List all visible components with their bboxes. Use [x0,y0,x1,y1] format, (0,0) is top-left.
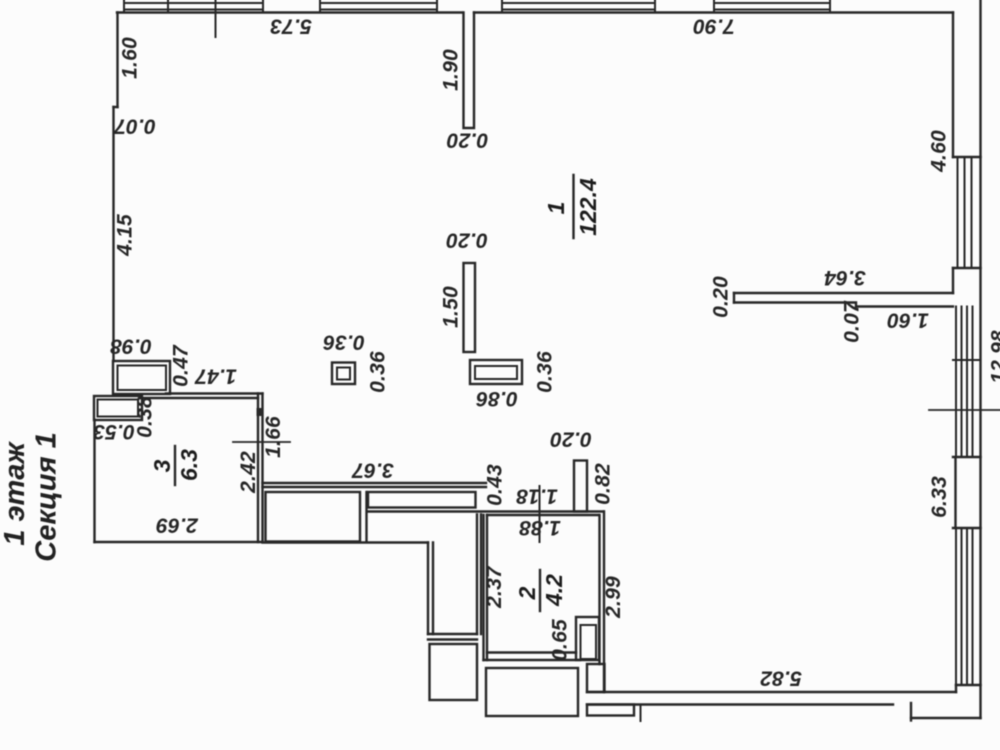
svg-text:1.18: 1.18 [516,485,558,508]
node room3 fraction bar [174,446,176,485]
svg-text:1.50: 1.50 [440,286,463,328]
wall duct room2 inner [581,625,597,659]
svg-text:1.66: 1.66 [262,416,285,458]
svg-text:7.90: 7.90 [693,15,735,38]
wire right outer wall [979,0,981,718]
wire wall 3.64 lower with jog [734,303,953,307]
wall thin box duct [368,492,476,508]
svg-text:1.90: 1.90 [440,49,463,91]
wall pier 0.53x0.38 outer [94,396,142,420]
svg-text:1.47: 1.47 [194,365,237,388]
svg-text:2: 2 [514,586,540,600]
wire wall 3.64 left cap [733,293,735,303]
wire top window band mullions [124,0,830,13]
wire right window bottom cap [956,684,981,686]
wire mid wall down double [428,543,433,635]
column small square inner [337,368,350,380]
wire top window band top line [124,2,830,4]
wire top interior wall stub 1.90 [464,13,475,129]
svg-text:0.36: 0.36 [367,351,390,393]
svg-text:0.20: 0.20 [446,229,488,252]
wire wall 3.64 upper [734,292,953,294]
wall pier 0.98 inner [118,366,167,391]
wire right window1 cap bottom [953,267,981,269]
wire dimension tick 1.66 [233,441,290,443]
svg-text:0.20: 0.20 [550,428,592,451]
text labels upside down [93,15,929,690]
wire bottom wall 5.82 lower [587,703,893,705]
svg-text:2.42: 2.42 [237,451,260,494]
wire dimension tick room2 top wall [539,486,541,542]
svg-text:0.86: 0.86 [476,387,518,410]
svg-text:5.73: 5.73 [270,15,312,38]
wire right door cap top [953,456,981,458]
svg-text:5.82: 5.82 [760,667,802,690]
wire right window1 cap top [953,156,981,158]
wire bottom right step vertical [910,703,912,721]
wall box big below kitchen2 [486,668,578,716]
svg-text:0.36: 0.36 [323,331,365,354]
svg-text:0.07: 0.07 [113,115,156,138]
wall box kitchen pier [266,492,361,542]
column bar 1.50 [464,263,476,352]
wire left wall jog 0.07 [114,106,118,108]
svg-text:0.20: 0.20 [710,276,733,318]
column rect 0.86 outer [470,360,522,384]
text labels rotated -90 [114,37,1000,661]
wire bottom wall right connector [955,685,957,692]
wire right wall solid mid [952,268,954,293]
wire left outer wall lower [112,107,114,361]
svg-text:1 этаж: 1 этаж [0,441,31,546]
column small square outer [332,363,355,385]
svg-text:0.53: 0.53 [93,420,135,443]
wire room3 right wall double [258,394,263,543]
wall pier 0.20 above room2 [574,461,587,512]
wire top outer wall inner line left segment [117,11,462,13]
svg-text:4.2: 4.2 [541,574,567,607]
wire left outer wall upper [116,13,118,108]
wire room3 top wall upper line [166,392,263,394]
window right lower panes [956,528,973,685]
wall duct room2 outer [576,617,599,660]
wire right wall top solid [952,13,954,158]
wire kitchen pier second line [365,492,367,542]
svg-text:1: 1 [543,202,569,215]
window right mid panes [956,307,973,458]
svg-text:0.47: 0.47 [170,344,193,387]
wall pier 0.53x0.38 inner [98,400,139,417]
node junction mark room3 wall [257,408,264,416]
column rect 0.86 inner [475,366,517,379]
svg-text:3.67: 3.67 [351,459,394,482]
svg-text:1.60: 1.60 [887,309,929,332]
window right upper panes [958,157,972,268]
wire wall under duct upper [367,510,604,512]
svg-text:12.98: 12.98 [988,330,1000,384]
svg-text:6.33: 6.33 [928,476,951,518]
wire room3 left outer wall [93,420,95,542]
svg-text:3: 3 [149,459,175,472]
svg-text:0.98: 0.98 [110,335,152,358]
wire right door cap bottom [953,527,981,529]
svg-text:122.4: 122.4 [575,178,601,236]
node room2 fraction bar [539,570,541,611]
svg-text:Секция 1: Секция 1 [31,432,63,561]
wire bottom right outer line [911,717,981,719]
wire room2 bottom wall double [484,653,581,661]
svg-text:0.20: 0.20 [447,129,489,152]
wire dimension tick right 410 [929,409,1000,411]
svg-text:1.60: 1.60 [119,37,142,79]
wire top outer wall inner line right segment [474,11,953,13]
wire room3 bottom wall [95,541,263,543]
svg-text:0.43: 0.43 [484,464,507,506]
wire right door jamb [954,457,956,528]
wire room2 right wall double [600,512,605,693]
svg-text:3.64: 3.64 [824,266,866,289]
wire kitchen wall 3.67 double [263,483,487,487]
wire dimension tick at 5.73 [215,0,217,37]
svg-text:4.60: 4.60 [928,130,951,173]
svg-text:2.69: 2.69 [156,514,199,537]
node room1 fraction bar [572,175,574,238]
svg-text:4.15: 4.15 [114,214,137,257]
svg-text:0.36: 0.36 [534,351,557,393]
wire room2 left wall double [484,515,488,660]
wire room3 top wall lower line [142,397,258,399]
wire wall under duct lower [487,514,599,516]
svg-text:0.07: 0.07 [841,300,864,343]
wire mid wall horizontal double [428,634,477,640]
wire right window subdivision cap [953,359,981,361]
wall box below kitchen [430,644,478,700]
svg-text:2.37: 2.37 [483,565,506,609]
wire bottom wall 5.82 upper [587,691,956,693]
wall box bottom small [587,705,634,716]
room number texts [149,178,601,607]
svg-text:2.99: 2.99 [602,576,625,619]
wire dimension tick bottom [640,705,642,721]
svg-text:0.65: 0.65 [549,619,572,661]
svg-text:6.3: 6.3 [176,449,202,481]
wall box below room2 [587,664,605,692]
section texts [0,432,63,561]
svg-text:0.82: 0.82 [592,463,615,505]
svg-text:1.88: 1.88 [519,516,561,539]
wire mid bottom wall [263,541,429,543]
wall pier 0.98 outer [113,361,170,394]
wire kitchen right wall double [477,515,481,635]
wire top window band bottom line [124,9,830,11]
svg-text:0.38: 0.38 [134,396,157,438]
